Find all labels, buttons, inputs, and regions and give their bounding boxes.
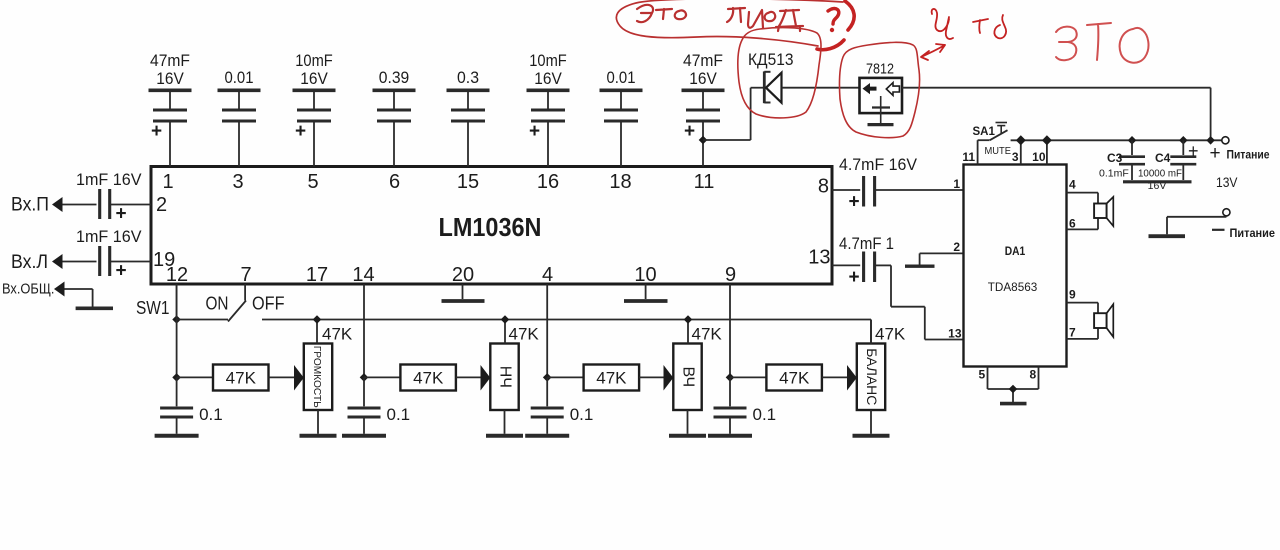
wire input L to C10 [63, 261, 97, 263]
svg-text:19: 19 [153, 249, 175, 271]
red big handwriting ETO - letter T [1087, 23, 1111, 60]
wire pin 8 to C11 [832, 189, 860, 191]
diode VD1 KD513 [764, 71, 781, 103]
capacitor C11 4.7mF 16V [848, 176, 874, 213]
ground for common input [76, 306, 113, 310]
svg-text:47K: 47K [322, 325, 353, 344]
red handwriting Eto - letter o [675, 10, 686, 19]
wire pin down to junction (R1 section) [176, 284, 178, 377]
svg-text:0.1: 0.1 [199, 405, 223, 424]
red arrow toward 7812 [921, 44, 945, 60]
svg-text:0.1: 0.1 [753, 405, 777, 424]
svg-text:7: 7 [240, 264, 251, 286]
svg-text:11: 11 [694, 171, 715, 193]
capacitor 0.1 at R1 junction [155, 377, 199, 435]
resistor R2 47K [400, 365, 456, 391]
DA1 pin 10 stub [1046, 140, 1048, 164]
ground at pin 20 [442, 299, 485, 303]
wire diode to 7812 [782, 87, 860, 89]
wire DA1 pin 9 to speaker [1067, 302, 1099, 304]
wire R1 to wiper arrow [269, 376, 295, 378]
wire pin 13 to C12 [832, 264, 860, 266]
svg-text:3: 3 [1012, 150, 1019, 164]
svg-text:10: 10 [1032, 150, 1046, 164]
svg-text:MUTE: MUTE [985, 145, 1012, 157]
svg-text:7812: 7812 [866, 61, 894, 78]
wire RP2 bass top to rail [504, 320, 506, 344]
svg-text:OFF: OFF [252, 293, 285, 313]
svg-text:+: + [295, 121, 306, 142]
red handwriting diod - letter o [765, 12, 776, 21]
svg-text:1mF 16V: 1mF 16V [76, 227, 142, 246]
svg-text:6: 6 [389, 171, 400, 193]
wire DA1 pin 4 to speaker [1067, 192, 1099, 194]
node junction pins 5-8 [1009, 385, 1016, 392]
svg-text:18: 18 [609, 171, 631, 193]
svg-text:TDA8563: TDA8563 [988, 280, 1038, 294]
svg-text:4.7mF 1: 4.7mF 1 [839, 234, 894, 253]
red blob around diode KD513 [738, 28, 821, 118]
svg-text:+: + [684, 121, 695, 142]
potentiometer RP3 treble body [673, 344, 701, 411]
red big handwriting ETO - letter O [1120, 28, 1149, 63]
svg-text:13: 13 [948, 327, 962, 341]
wire RP2 bass bottom to ground [504, 410, 506, 434]
wire RP4 balance bottom to ground [870, 410, 872, 434]
wire DA1 pins 5 and 8 to ground [988, 367, 1039, 403]
ground at DA1 pin 2 [905, 265, 935, 268]
red bold closing paren of bubble [845, 1, 854, 30]
svg-text:47K: 47K [596, 369, 627, 388]
svg-text:0.1mF: 0.1mF [1099, 168, 1129, 180]
wire RP1 volume bottom to ground [317, 410, 319, 434]
svg-text:0.01: 0.01 [225, 68, 254, 87]
wiper arrow into RP1 volume [294, 365, 304, 391]
wire mute rail to power terminal [1011, 139, 1222, 141]
svg-text:13V: 13V [1216, 174, 1238, 190]
svg-text:ON: ON [206, 293, 229, 313]
node rail junction above RP1 volume [313, 316, 320, 323]
wire pin down to junction (R2 section) [363, 284, 365, 377]
ground of RP1 volume [300, 434, 337, 438]
potentiometer RP4 balance body [857, 344, 885, 411]
svg-text:0.1: 0.1 [387, 405, 411, 424]
svg-text:+: + [529, 121, 540, 142]
label - Pitanie [1212, 229, 1225, 231]
capacitor C1 47mF at top [149, 51, 192, 167]
svg-text:C3: C3 [1107, 151, 1123, 165]
svg-text:16V: 16V [156, 69, 184, 88]
wire pin 10 to ground [645, 284, 647, 299]
ground of RP3 treble [669, 434, 706, 438]
capacitor 0.1 at R2 junction [342, 377, 386, 435]
svg-text:47mF: 47mF [683, 51, 723, 70]
wire 7812 to power rail [902, 87, 1211, 89]
svg-text:C4: C4 [1155, 151, 1171, 165]
wire pin 20 to ground [462, 284, 464, 299]
rail corner down to balance pot [870, 320, 872, 345]
wire RP3 treble bottom to ground [687, 410, 689, 434]
node junction at 7812 feed [1207, 137, 1214, 144]
wire R4 to wiper arrow [822, 376, 847, 378]
red blob around 7812 [839, 42, 919, 137]
svg-text:КД513: КД513 [748, 50, 794, 69]
node junction at R1 [173, 374, 180, 381]
wire DA1 pin 2 to ground [920, 252, 964, 254]
svg-text:+: + [115, 261, 126, 282]
wire junction to resistor R4 [730, 376, 766, 378]
svg-text:16V: 16V [300, 69, 328, 88]
capacitor 0.1 at R4 junction [708, 377, 752, 435]
svg-text:1mF 16V: 1mF 16V [76, 170, 142, 189]
svg-text:0.1: 0.1 [570, 405, 594, 424]
capacitor C5 0.3 at top [447, 68, 490, 167]
terminal - power (Pitanie) [1223, 209, 1230, 216]
input Vx.OBShch arrow terminal [54, 282, 65, 297]
svg-text:DA1: DA1 [1005, 246, 1026, 258]
svg-text:5: 5 [979, 368, 986, 382]
capacitor C3 10mF at top [293, 51, 336, 167]
red handwriting chto - letter t [973, 19, 988, 33]
switch SA1 mute [978, 123, 1008, 141]
svg-text:1: 1 [162, 171, 173, 193]
capacitor C12 4.7mF [848, 252, 874, 289]
node junction pin10 [1043, 136, 1052, 145]
wire DA1 pin 7 to speaker [1067, 338, 1099, 340]
wire RP4 balance top to rail [870, 320, 872, 344]
svg-text:8: 8 [818, 176, 829, 198]
wire pin down to junction (R4 section) [729, 284, 731, 377]
svg-text:+: + [1188, 141, 1199, 161]
wire junction to resistor R1 [177, 376, 213, 378]
wire pin 12 down [176, 284, 178, 320]
potentiometer RP2 bass body [490, 344, 518, 411]
red bubble around 'Eto diod?' [616, 0, 843, 46]
svg-text:+: + [151, 121, 162, 142]
speaker BA2 [1094, 304, 1113, 337]
capacitor 0.1 at R3 junction [525, 377, 569, 435]
capacitor C14 10000mF [1170, 140, 1198, 180]
wire common input to ground [65, 288, 93, 290]
red handwriting diod - letter d2 [776, 10, 803, 31]
wire - power to ground [1225, 215, 1227, 218]
red handwriting chto - letter o [994, 15, 1006, 38]
red bold hook under bubble [817, 40, 844, 50]
wire rail right segment [262, 319, 871, 321]
svg-text:Питание: Питание [1230, 228, 1276, 240]
wire junction to diode riser [703, 139, 751, 141]
svg-text:10: 10 [634, 264, 656, 286]
voltage regulator 7812 body [860, 78, 903, 125]
svg-text:+: + [848, 267, 859, 288]
wiper arrow into RP3 treble [664, 365, 674, 391]
svg-text:2: 2 [953, 240, 960, 254]
input Vx.P arrow terminal [52, 197, 63, 212]
capacitor C6 10mF at top [527, 51, 570, 167]
svg-text:17: 17 [306, 264, 328, 286]
svg-text:7: 7 [1069, 326, 1076, 340]
IC DA1 TDA8563 body [964, 165, 1067, 367]
red handwriting Eto - letter t [656, 9, 672, 19]
node junction at C13 [1128, 137, 1135, 144]
capacitor C9 1mF 16V [100, 189, 127, 225]
svg-text:20: 20 [452, 264, 474, 286]
IC U1 LM1036N body [151, 167, 832, 285]
wire R2 to wiper arrow [456, 376, 481, 378]
svg-text:SW1: SW1 [136, 298, 170, 318]
resistor R3 47K [584, 365, 640, 391]
wiper arrow into RP4 balance [847, 365, 857, 391]
svg-text:SA1: SA1 [973, 126, 996, 138]
node junction on C8 wire [699, 136, 706, 143]
terminal + power (Pitanie) [1222, 137, 1229, 144]
svg-text:Вх.Л: Вх.Л [11, 252, 48, 273]
wire RP3 treble top to rail [687, 320, 689, 344]
wire rail left segment [177, 319, 228, 321]
DA1 pin 3 stub [1020, 140, 1022, 164]
resistor R4 47K [766, 365, 822, 391]
wiper arrow into RP2 bass [481, 365, 491, 391]
potentiometer RP1 volume body [304, 344, 332, 411]
wire C11 to DA1 pin 1 [876, 189, 964, 191]
wire DA1 pin 6 to speaker [1067, 228, 1099, 230]
capacitor C13 0.1mF [1119, 140, 1145, 180]
svg-text:0.39: 0.39 [379, 68, 410, 87]
wire RP1 volume top to rail [316, 320, 318, 344]
svg-text:10mF: 10mF [529, 51, 567, 70]
ground at pin 10 [624, 299, 668, 303]
node rail junction above RP3 treble [684, 316, 691, 323]
svg-text:Вх.П: Вх.П [11, 195, 49, 216]
svg-text:0.3: 0.3 [457, 68, 479, 87]
svg-text:47mF: 47mF [150, 51, 190, 70]
red handwriting Eto - letter E [637, 5, 653, 22]
svg-text:13: 13 [808, 247, 830, 269]
wire junction to resistor R3 [547, 376, 583, 378]
svg-text:47K: 47K [509, 325, 540, 344]
svg-text:БАЛАНС: БАЛАНС [864, 348, 880, 405]
svg-text:8: 8 [1030, 368, 1037, 382]
svg-text:+: + [1210, 143, 1221, 164]
red big handwriting ETO - letter E [1056, 27, 1077, 61]
capacitor C10 1mF 16V [100, 246, 127, 282]
svg-text:LM1036N: LM1036N [439, 212, 542, 242]
svg-text:4.7mF 16V: 4.7mF 16V [839, 155, 918, 174]
svg-text:47K: 47K [779, 369, 810, 388]
wire pin down to junction (R3 section) [546, 284, 548, 377]
capacitor C7 0.01 at top [600, 68, 643, 167]
red handwriting chto - letter ch [932, 9, 953, 39]
node junction at R4 [726, 374, 733, 381]
node junction at R2 [360, 374, 367, 381]
svg-text:2: 2 [156, 194, 167, 216]
wire C10 to pin 19 [111, 261, 151, 263]
svg-text:ВЧ: ВЧ [679, 366, 696, 387]
svg-text:9: 9 [725, 264, 736, 286]
svg-text:11: 11 [962, 150, 975, 164]
wire junction to resistor R2 [364, 376, 400, 378]
svg-text:0.01: 0.01 [607, 68, 636, 87]
ground at - power [1149, 234, 1186, 238]
ground bar for C13 C14 [1123, 180, 1192, 183]
speaker BA1 [1094, 197, 1113, 226]
ground of RP2 bass [486, 434, 523, 438]
svg-text:+: + [848, 192, 859, 213]
svg-text:9: 9 [1069, 288, 1076, 302]
node junction at R3 [544, 374, 551, 381]
svg-text:Вх.ОБЩ.: Вх.ОБЩ. [2, 281, 55, 298]
resistor R1 47K [213, 365, 269, 391]
ground of DA1 [1000, 402, 1027, 406]
svg-text:Питание: Питание [1227, 149, 1270, 161]
svg-text:47K: 47K [692, 325, 723, 344]
svg-text:47K: 47K [413, 369, 444, 388]
svg-text:14: 14 [352, 264, 374, 286]
svg-text:16V: 16V [534, 69, 562, 88]
node junction pin12-rail [173, 316, 180, 323]
wire R3 to wiper arrow [639, 376, 663, 378]
svg-text:6: 6 [1069, 217, 1076, 231]
red bold question mark [828, 9, 839, 24]
ground of RP4 balance [853, 434, 890, 438]
wire C12 to DA1 pin 13 [876, 264, 891, 266]
svg-text:47K: 47K [226, 369, 257, 388]
svg-text:16: 16 [537, 171, 559, 193]
capacitor C8 47mF at top [682, 51, 725, 167]
svg-text:1: 1 [953, 177, 960, 191]
switch SW1 blade [228, 301, 246, 322]
svg-text:4: 4 [1069, 178, 1076, 192]
svg-text:ГРОМКОСТЬ: ГРОМКОСТЬ [311, 346, 323, 408]
svg-text:10mF: 10mF [295, 51, 333, 70]
svg-text:10000 mF: 10000 mF [1138, 168, 1182, 180]
svg-text:16V: 16V [689, 69, 717, 88]
capacitor C2 0.01 at top [218, 68, 261, 167]
input Vx.L arrow terminal [52, 254, 63, 269]
svg-text:5: 5 [307, 171, 318, 193]
svg-text:15: 15 [457, 171, 479, 193]
wire C9 to pin 2 [111, 204, 151, 206]
wire input P to C9 [63, 204, 97, 206]
node junction at C14 [1180, 137, 1187, 144]
node junction pin3 [1017, 136, 1026, 145]
svg-text:3: 3 [232, 171, 243, 193]
svg-text:47K: 47K [875, 325, 906, 344]
node rail junction above RP2 bass [501, 316, 508, 323]
svg-text:4: 4 [542, 264, 553, 286]
DA1 pin 11 stub [977, 140, 979, 164]
red handwriting diod - letter i [748, 10, 763, 28]
capacitor C4 0.39 at top [373, 68, 416, 167]
svg-text:НЧ: НЧ [496, 366, 513, 388]
wire pin 7 stub [244, 284, 246, 301]
svg-text:+: + [115, 204, 126, 225]
red handwriting diod - letter d1 [727, 8, 745, 22]
